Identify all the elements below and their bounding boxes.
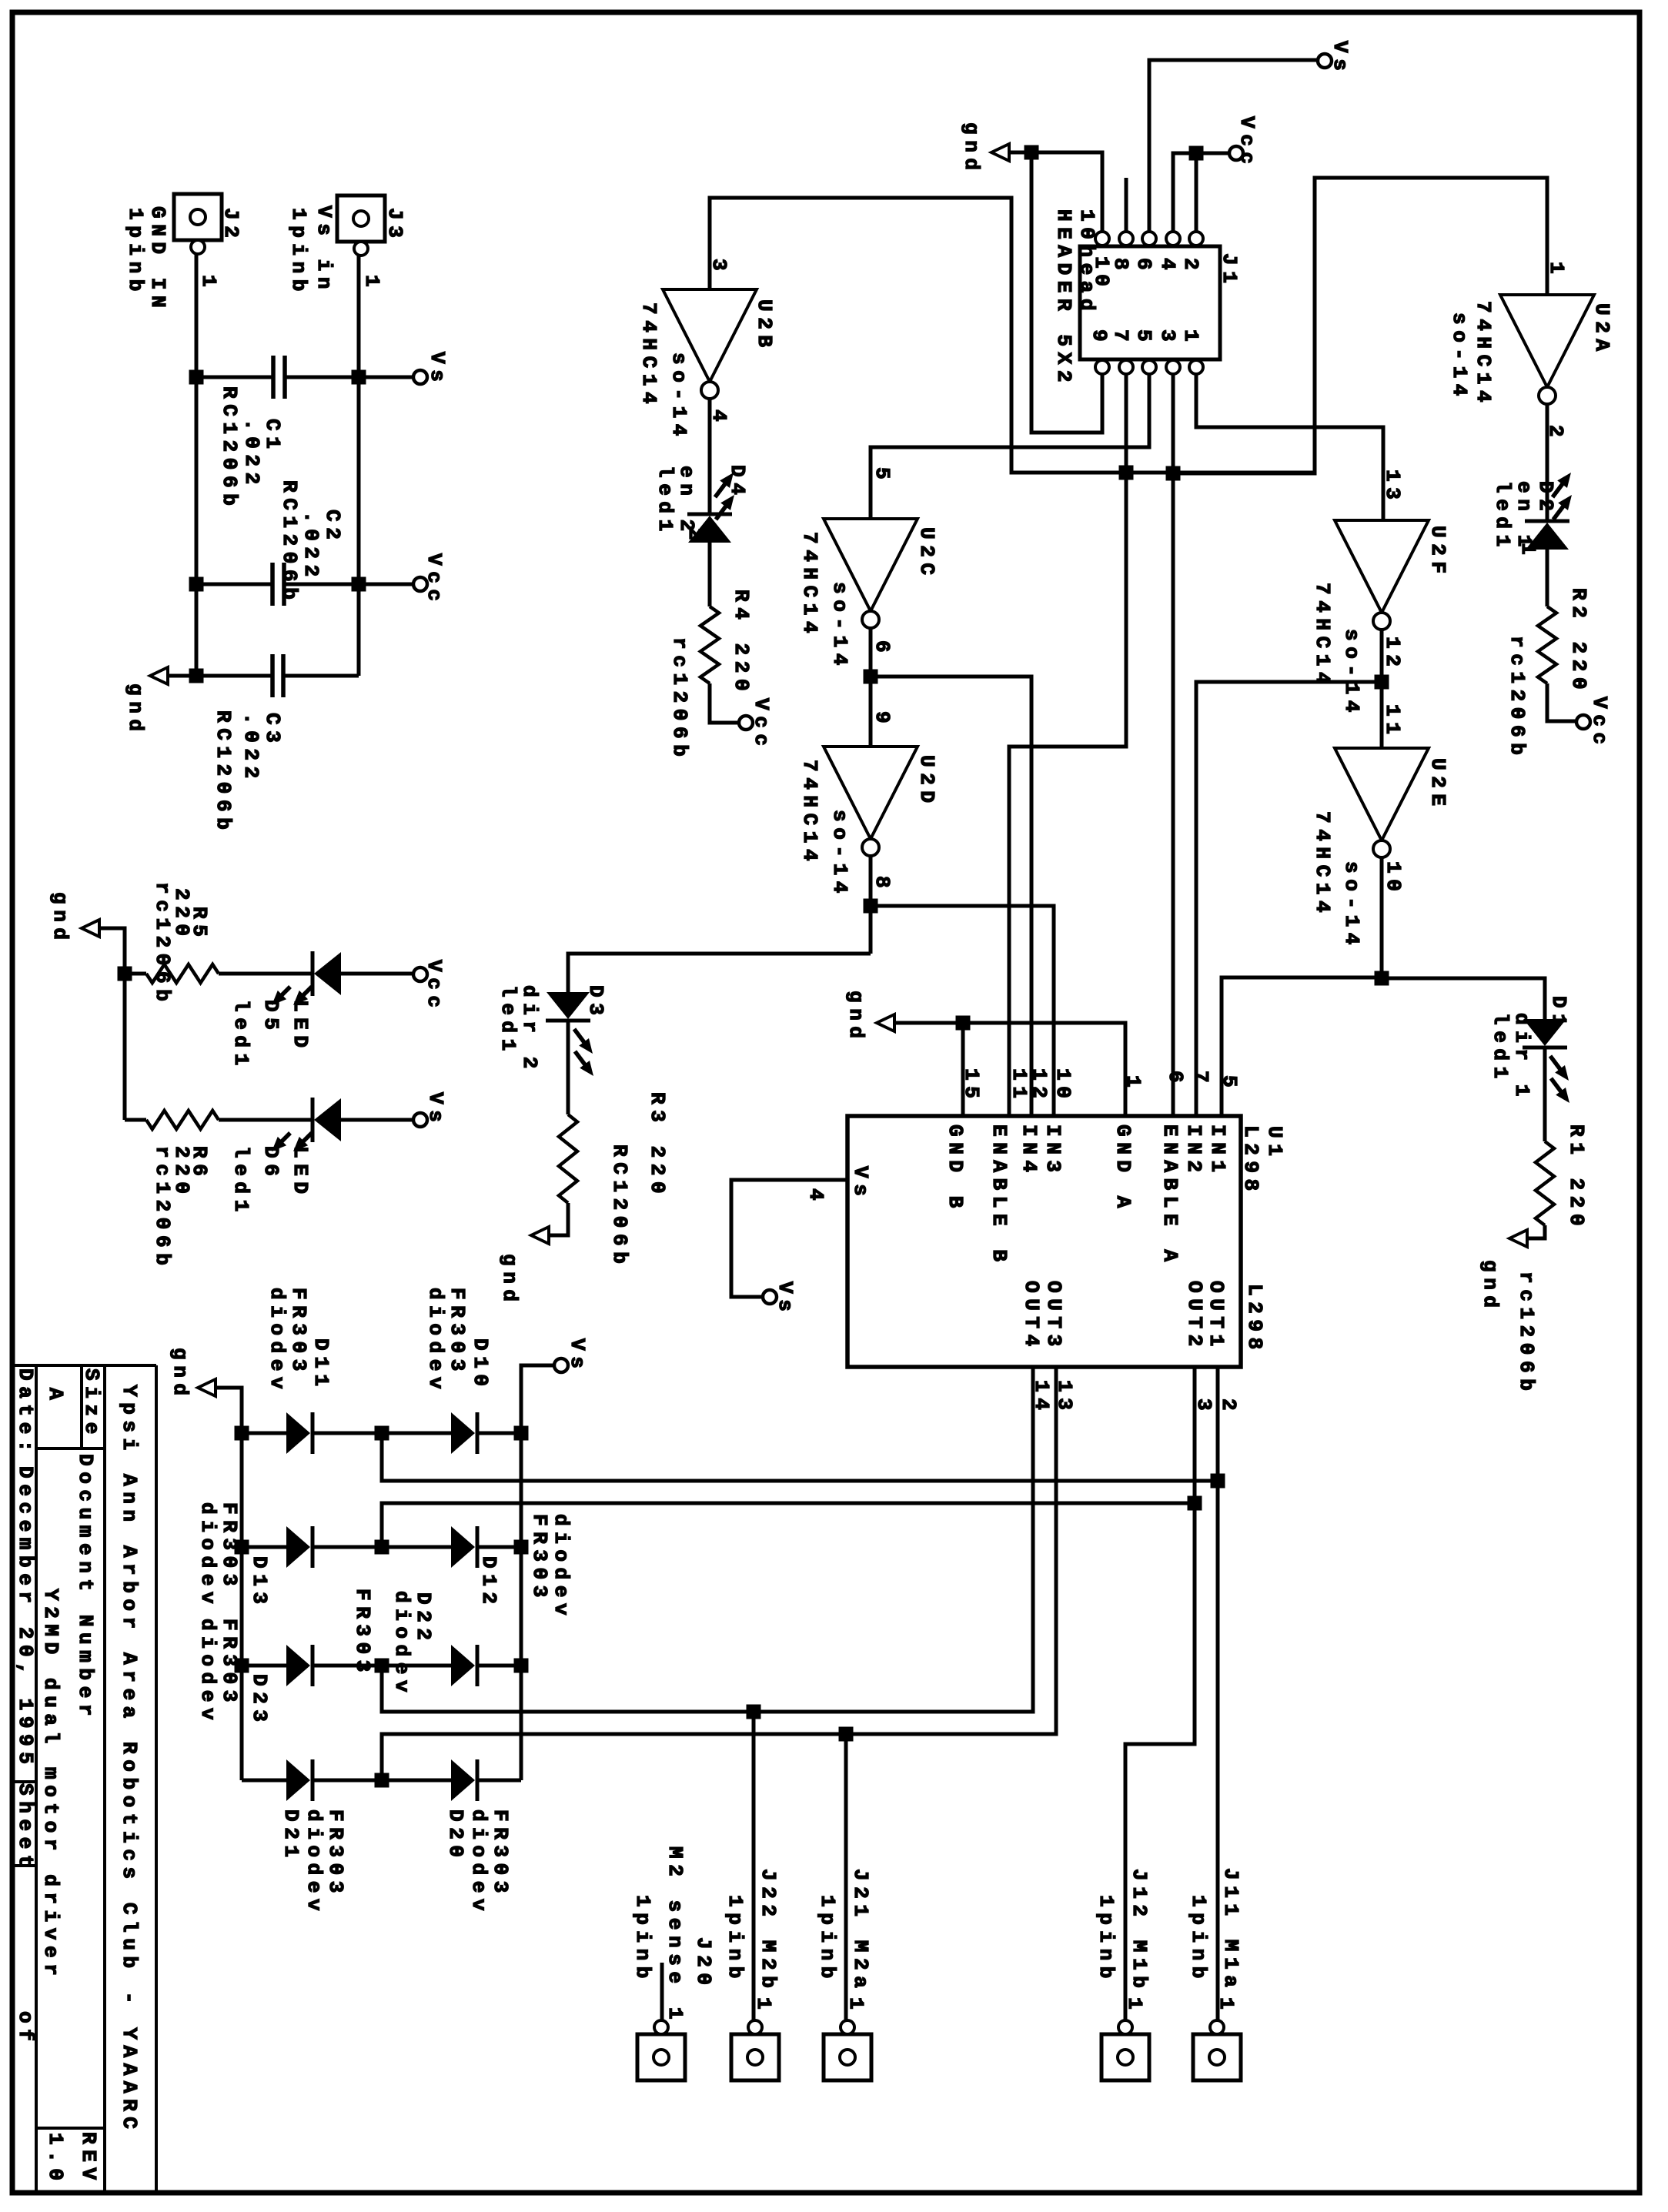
svg-text:J11 M1a: J11 M1a (1219, 1868, 1242, 1993)
svg-text:U1: U1 (1263, 1126, 1286, 1161)
svg-text:RC1206b: RC1206b (608, 1144, 631, 1269)
svg-text:Sheet: Sheet (14, 1783, 37, 1873)
resistor R4 (700, 606, 719, 683)
svg-text:gnd: gnd (498, 1254, 521, 1308)
svg-text:1pinb: 1pinb (816, 1895, 839, 1984)
wire J1 pin 6 to Vs (1149, 60, 1318, 232)
svg-text:1.0: 1.0 (44, 2133, 67, 2187)
inverter U2A (1500, 295, 1594, 387)
svg-text:so-14: so-14 (667, 353, 690, 442)
svg-text:Ypsi Ann Arbor Area Robotics C: Ypsi Ann Arbor Area Robotics Club - YAAA… (118, 1385, 141, 2135)
LED D1 (1523, 1046, 1567, 1050)
inverter U2C (824, 519, 918, 611)
junction OUT2 node (1188, 1496, 1202, 1511)
svg-text:ENABLE B: ENABLE B (988, 1124, 1011, 1268)
svg-text:1pinb: 1pinb (124, 208, 147, 297)
diode D13 (242, 1545, 286, 1549)
svg-text:IN1: IN1 (1206, 1124, 1229, 1178)
capacitor C3 (164, 674, 272, 678)
svg-text:D4: D4 (726, 465, 749, 500)
svg-text:9: 9 (871, 711, 894, 729)
svg-text:1: 1 (360, 275, 383, 292)
junction Vcc pins (1189, 146, 1204, 161)
inverter U2D (824, 747, 918, 839)
connector J11 (1193, 2034, 1241, 2080)
svg-text:3: 3 (1156, 329, 1179, 347)
wire D6 to Vs (341, 1118, 413, 1122)
wire OUT1 to diode row 1 (382, 1433, 1218, 1481)
wire J1 pin 1 to U2F input (1196, 374, 1383, 520)
svg-text:1: 1 (1179, 329, 1202, 347)
svg-text:74HC14: 74HC14 (637, 302, 660, 409)
svg-text:4: 4 (1156, 258, 1179, 276)
svg-text:2: 2 (1179, 258, 1202, 276)
svg-text:74HC14: 74HC14 (798, 532, 821, 639)
svg-text:so-14: so-14 (828, 582, 851, 671)
connector J21 (824, 2034, 871, 2080)
svg-text:Vcc: Vcc (423, 960, 446, 1014)
LED D4 (687, 513, 732, 516)
svg-text:D2: D2 (1534, 481, 1557, 516)
svg-text:D11: D11 (309, 1338, 333, 1392)
svg-text:1: 1 (844, 1997, 867, 2015)
svg-text:OUT3: OUT3 (1042, 1281, 1065, 1352)
svg-text:gnd: gnd (124, 683, 147, 737)
svg-text:REV: REV (77, 2132, 100, 2186)
junction left bus row 2 (235, 1540, 249, 1555)
wire R4 to Vcc (710, 683, 738, 723)
wire U1 pin 14 to diode row 4 (382, 1367, 1056, 1780)
node Vs terminal top right (1318, 54, 1332, 68)
node Vcc terminal R4 (739, 716, 753, 730)
svg-text:M2 sense 1: M2 sense 1 (664, 1846, 687, 2025)
svg-text:U2C: U2C (915, 527, 938, 581)
svg-text:gnd: gnd (169, 1348, 192, 1402)
wire D5 to Vcc (341, 972, 413, 976)
svg-text:gnd: gnd (1479, 1260, 1502, 1314)
svg-text:5: 5 (1132, 329, 1155, 347)
node Vs terminal U1 (763, 1290, 777, 1304)
wire OUT2 to diode row 2 (382, 1503, 1195, 1547)
node Vs terminal D6 (413, 1113, 427, 1127)
svg-text:13: 13 (1381, 469, 1404, 505)
wire U1 pin 5 to node (1222, 977, 1382, 1116)
svg-text:A: A (44, 1388, 67, 1405)
svg-text:GND B: GND B (944, 1124, 967, 1214)
svg-text:Vs: Vs (774, 1281, 797, 1317)
wire J1 pin 8 stub (1125, 178, 1128, 232)
svg-text:11: 11 (1381, 704, 1404, 740)
svg-text:FR303: FR303 (351, 1589, 374, 1678)
svg-text:6: 6 (1132, 258, 1155, 276)
svg-text:1pinb: 1pinb (287, 208, 310, 297)
svg-text:J22 M2b: J22 M2b (757, 1869, 780, 1993)
svg-text:led1: led1 (496, 985, 520, 1057)
svg-text:D13: D13 (248, 1556, 271, 1610)
wire U1 pin 2 to J11 (1216, 1367, 1220, 2022)
junction right bus row 3 (514, 1659, 529, 1673)
svg-text:D6: D6 (259, 1146, 282, 1181)
resistor R3 (559, 1114, 577, 1203)
svg-text:6: 6 (871, 640, 894, 658)
svg-text:D1: D1 (1547, 996, 1570, 1031)
junction mid row 1 (375, 1426, 389, 1441)
svg-text:L298: L298 (1243, 1284, 1266, 1355)
svg-text:8: 8 (871, 876, 894, 894)
svg-text:R4 220: R4 220 (730, 590, 753, 697)
svg-text:D10: D10 (469, 1338, 492, 1392)
svg-text:rc1206b: rc1206b (151, 882, 174, 1007)
svg-text:Vcc: Vcc (1235, 116, 1259, 170)
LED D2 (1525, 520, 1569, 523)
svg-text:J2: J2 (219, 208, 242, 243)
diode D11 (242, 1432, 286, 1435)
svg-text:gnd: gnd (960, 122, 983, 176)
svg-text:R2 220: R2 220 (1567, 588, 1590, 695)
svg-text:2: 2 (684, 528, 707, 546)
svg-text:74HC14: 74HC14 (798, 760, 821, 867)
svg-text:74HC14: 74HC14 (1472, 301, 1495, 408)
wire gnd to J1 pin 10 (1009, 152, 1102, 232)
svg-text:dir 1: dir 1 (1510, 1013, 1533, 1102)
junction U2F out (1375, 675, 1389, 690)
wire U2C out to U1 pin 12 (871, 677, 1031, 1116)
wire gnd to R5/R6 (99, 928, 125, 1120)
junction OUT1 node (1211, 1474, 1225, 1489)
svg-text:J12 M1b: J12 M1b (1128, 1869, 1151, 1993)
svg-text:led1: led1 (653, 466, 677, 537)
junction R5 node (118, 967, 132, 981)
svg-text:diodev: diodev (266, 1288, 289, 1395)
svg-text:OUT1: OUT1 (1205, 1281, 1228, 1352)
svg-text:7: 7 (1109, 329, 1132, 347)
wire U2D output (869, 856, 873, 954)
node Vcc terminal J1 (1229, 146, 1243, 160)
wire U2F out to U1 pin 7 (1196, 682, 1382, 1116)
svg-text:.022: .022 (239, 713, 262, 784)
svg-text:of: of (14, 2011, 37, 2047)
header J1 (1080, 246, 1220, 359)
svg-text:FR303: FR303 (446, 1288, 469, 1377)
svg-text:FR303: FR303 (218, 1619, 241, 1708)
LED D5 (311, 951, 315, 996)
connector J12 (1101, 2034, 1149, 2080)
svg-text:D23: D23 (248, 1674, 271, 1728)
wire U1 pin 13 to diode row 3 (382, 1367, 1033, 1712)
inverter U2E (1335, 748, 1429, 840)
svg-text:Document Number: Document Number (74, 1454, 97, 1722)
LED D3 (546, 1019, 590, 1023)
wire gnd to U1 pins 15 and 1 (894, 1023, 1125, 1116)
junction C3 left (189, 669, 204, 683)
svg-text:diodev: diodev (390, 1591, 413, 1698)
svg-text:R1 220: R1 220 (1565, 1124, 1588, 1231)
svg-text:.022: .022 (299, 511, 323, 583)
svg-text:D3: D3 (584, 985, 607, 1021)
svg-text:diodev: diodev (550, 1514, 573, 1621)
wire Vs bus right (521, 1365, 554, 1780)
svg-text:1: 1 (752, 1997, 775, 2015)
wire U1 pin 3 to J12 (1125, 1367, 1195, 2022)
junction C2 right (352, 577, 366, 592)
wire D1 to R1 (1543, 1048, 1547, 1141)
svg-text:diodev: diodev (196, 1619, 219, 1726)
svg-text:Size: Size (80, 1368, 103, 1440)
svg-text:HEADER 5X2: HEADER 5X2 (1052, 209, 1075, 388)
svg-text:ENABLE A: ENABLE A (1158, 1124, 1182, 1268)
svg-text:RC1206b: RC1206b (218, 386, 241, 511)
ground gnd R1 (1509, 1230, 1527, 1247)
junction right bus row 2 (514, 1540, 529, 1555)
svg-text:6: 6 (1164, 1071, 1187, 1088)
ground gnd R3 (531, 1227, 549, 1244)
svg-text:Vs: Vs (849, 1166, 872, 1201)
wire R3 to gnd (549, 1203, 568, 1235)
svg-text:L298: L298 (1239, 1125, 1262, 1197)
ground gnd C3 (150, 667, 168, 684)
LED D6 (311, 1098, 315, 1142)
svg-text:LED: LED (289, 1000, 312, 1054)
junction J3-Vs (352, 370, 366, 385)
svg-text:FR303: FR303 (218, 1502, 241, 1592)
junction M2b tap (747, 1705, 761, 1719)
svg-text:Vs: Vs (1329, 41, 1352, 76)
diode D22 (382, 1664, 451, 1668)
ground gnd diode array (198, 1379, 216, 1396)
svg-text:D21: D21 (279, 1809, 303, 1863)
svg-text:en 2: en 2 (675, 466, 698, 537)
svg-text:C1: C1 (261, 419, 284, 454)
svg-text:gnd: gnd (844, 991, 867, 1044)
wire gnd bus left (216, 1388, 242, 1780)
svg-text:rc1206b: rc1206b (1506, 636, 1529, 760)
svg-text:led1: led1 (229, 1000, 252, 1071)
svg-text:Vcc: Vcc (1588, 697, 1611, 750)
svg-text:Vcc: Vcc (750, 698, 773, 752)
svg-text:OUT2: OUT2 (1183, 1281, 1206, 1352)
junction pin7-U2B (1119, 466, 1134, 480)
svg-text:1: 1 (197, 275, 220, 292)
svg-text:4: 4 (804, 1188, 827, 1206)
junction C2 left (189, 577, 204, 592)
svg-text:FR303: FR303 (489, 1809, 512, 1899)
svg-text:RC1206b: RC1206b (212, 710, 235, 835)
svg-text:so-14: so-14 (1340, 629, 1363, 718)
wire Vs tap (359, 376, 413, 379)
svg-text:FR303: FR303 (324, 1809, 347, 1899)
wire U1 pin 4 to Vs (731, 1180, 847, 1297)
svg-text:so-14: so-14 (828, 810, 851, 899)
svg-text:5: 5 (871, 467, 894, 485)
svg-text:1pinb: 1pinb (724, 1895, 747, 1984)
diode D23 (242, 1664, 286, 1668)
ground gnd R5 (82, 920, 99, 937)
wire U2D out to D3 (568, 954, 871, 998)
svg-text:IN2: IN2 (1182, 1124, 1205, 1178)
node Vcc terminal D5 (413, 967, 427, 981)
IC U1 L298 (847, 1116, 1241, 1367)
svg-text:5: 5 (1218, 1075, 1241, 1093)
node Vcc terminal (413, 577, 427, 591)
diode D10 (382, 1432, 451, 1435)
svg-text:C3: C3 (261, 713, 284, 748)
connector J2 (174, 194, 222, 240)
svg-text:U2D: U2D (915, 755, 938, 809)
wire U2F output to U2E input (1380, 630, 1384, 748)
svg-text:8: 8 (1109, 258, 1132, 276)
svg-text:D22: D22 (412, 1592, 435, 1646)
wire J2 pin 1 down (195, 254, 199, 676)
svg-text:GND IN: GND IN (146, 206, 169, 313)
svg-text:U2E: U2E (1426, 758, 1449, 812)
svg-text:LED: LED (289, 1146, 312, 1200)
title block frame (13, 1364, 156, 1367)
junction mid row 4 (375, 1773, 389, 1788)
ground gnd U1 (877, 1014, 894, 1031)
svg-text:diodev: diodev (303, 1809, 326, 1916)
ground gnd J1 (991, 144, 1009, 161)
svg-text:rc1206b: rc1206b (1515, 1271, 1538, 1396)
svg-text:D5: D5 (259, 1000, 282, 1035)
resistor R5 (125, 972, 146, 976)
capacitor C1 (196, 376, 273, 379)
svg-text:led1: led1 (229, 1146, 252, 1218)
junction mid row 2 (375, 1540, 389, 1555)
junction M2a tap (839, 1727, 854, 1742)
wire J1 pin 3 to U1 pin 6 (1172, 374, 1175, 1116)
svg-text:1pinb: 1pinb (1187, 1895, 1210, 1984)
svg-text:J20: J20 (692, 1937, 715, 1991)
resistor R2 (1538, 606, 1556, 683)
svg-text:en 1: en 1 (1513, 481, 1536, 553)
svg-text:1: 1 (1215, 1997, 1238, 2015)
junction pin3-U2A (1166, 466, 1181, 481)
wire R2 to Vcc (1547, 683, 1576, 721)
junction U2E out node (1375, 971, 1389, 986)
wire U2E output (1380, 857, 1384, 978)
connector J22 (731, 2034, 779, 2080)
svg-text:Y2MD dual motor driver: Y2MD dual motor driver (39, 1589, 62, 1981)
svg-text:74HC14: 74HC14 (1311, 811, 1334, 918)
wire U2C output to U2D input (869, 628, 873, 747)
svg-text:rc1206b: rc1206b (668, 637, 691, 762)
wire J1 pin 9 loop to gnd (1031, 152, 1102, 433)
svg-text:11: 11 (1008, 1068, 1031, 1104)
svg-text:IN4: IN4 (1018, 1124, 1041, 1178)
svg-text:so-14: so-14 (1340, 861, 1363, 951)
capacitor C2 (196, 583, 272, 586)
svg-text:R3 220: R3 220 (646, 1092, 669, 1199)
junction left bus row 3 (235, 1659, 249, 1673)
svg-text:U2B: U2B (753, 299, 776, 353)
resistor R1 (1536, 1141, 1554, 1225)
node Vcc terminal R2 (1576, 715, 1590, 729)
wire C2 to Vcc (359, 583, 413, 586)
svg-text:1: 1 (1545, 262, 1568, 279)
svg-text:GND A: GND A (1111, 1124, 1135, 1214)
svg-text:led1: led1 (1491, 481, 1514, 553)
wire node to D1 (1382, 978, 1545, 1025)
wire R1 to gnd (1526, 1225, 1545, 1238)
svg-text:12: 12 (1028, 1068, 1051, 1104)
svg-text:9: 9 (1088, 329, 1111, 347)
svg-text:.022: .022 (240, 419, 263, 490)
junction U2D out (864, 899, 878, 914)
svg-text:Date:: Date: (14, 1368, 37, 1458)
node Vs terminal diode array (554, 1358, 568, 1372)
svg-text:diodev: diodev (424, 1288, 447, 1395)
svg-text:diodev: diodev (467, 1809, 490, 1916)
svg-text:so-14: so-14 (1448, 312, 1471, 402)
svg-text:1pinb: 1pinb (1095, 1895, 1118, 1984)
svg-text:12: 12 (1381, 637, 1404, 672)
junction mid row 3 (375, 1659, 389, 1673)
svg-text:2: 2 (1217, 1398, 1240, 1416)
wire D3 to R3 (567, 1021, 570, 1114)
connector J3 (337, 195, 385, 242)
svg-text:1pinb: 1pinb (631, 1895, 654, 1984)
svg-text:December 20, 1995: December 20, 1995 (14, 1466, 37, 1769)
junction U2C out (864, 670, 878, 684)
svg-text:FR303: FR303 (528, 1514, 551, 1603)
svg-text:Vs in: Vs in (313, 205, 336, 295)
svg-text:gnd: gnd (48, 892, 72, 946)
wire U2A output to D2 (1546, 404, 1549, 521)
svg-text:dir 2: dir 2 (518, 985, 541, 1074)
wire J1 pin 7 to U1 pin 11 (1009, 374, 1126, 1116)
svg-text:OUT4: OUT4 (1020, 1281, 1043, 1352)
svg-text:D20: D20 (444, 1809, 467, 1863)
svg-text:U2F: U2F (1426, 526, 1449, 580)
connector J20 (637, 2034, 685, 2080)
wire U2D out to U1 pin 10 (871, 906, 1054, 1116)
wire Vcc to J1 pins 2 and 4 (1173, 153, 1229, 232)
svg-text:Vs: Vs (424, 1092, 447, 1128)
svg-text:J21 M2a: J21 M2a (849, 1869, 872, 1993)
junction gnd loop (1025, 145, 1039, 160)
svg-text:Vs: Vs (426, 352, 449, 387)
inverter U2F (1335, 520, 1429, 613)
junction right bus row 1 (514, 1426, 529, 1441)
svg-text:1: 1 (1516, 543, 1539, 560)
wire U2B input (710, 198, 1315, 473)
svg-text:1: 1 (1123, 1997, 1146, 2015)
junction C1 left (189, 370, 204, 385)
svg-text:C2: C2 (321, 510, 344, 545)
resistor R6 (125, 1118, 146, 1122)
diode D20 (382, 1779, 451, 1783)
wire tap to J22 (752, 1712, 756, 2022)
svg-text:rc1206b: rc1206b (151, 1146, 174, 1271)
svg-text:7: 7 (1189, 1071, 1212, 1088)
junction U1 pin15 (956, 1016, 971, 1031)
wire J3 pin 1 down (357, 256, 361, 676)
wire U2B output to D4 (708, 399, 712, 514)
svg-text:D12: D12 (477, 1556, 500, 1610)
svg-text:IN3: IN3 (1041, 1124, 1065, 1178)
svg-text:RC1206b: RC1206b (278, 480, 301, 605)
inverter U2B (663, 289, 757, 382)
svg-text:J3: J3 (383, 208, 406, 243)
svg-text:74HC14: 74HC14 (1311, 583, 1334, 690)
svg-text:Vs: Vs (566, 1338, 589, 1374)
svg-text:FR303: FR303 (287, 1288, 310, 1377)
svg-text:10: 10 (1382, 861, 1405, 897)
svg-text:led1: led1 (1489, 1013, 1512, 1084)
wire D4 to R4 (708, 543, 712, 606)
svg-text:Vcc: Vcc (423, 553, 446, 607)
wire tap to J21 (844, 1734, 848, 2022)
